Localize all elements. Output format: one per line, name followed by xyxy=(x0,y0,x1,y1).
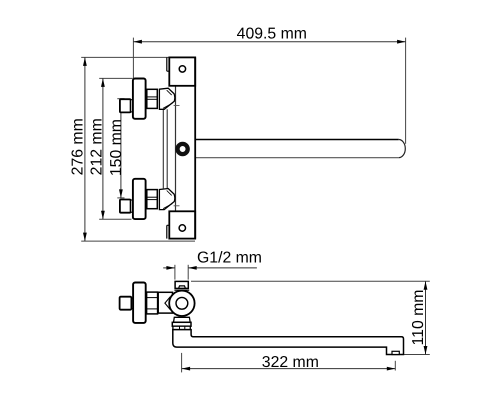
svg-text:150 mm: 150 mm xyxy=(108,119,125,176)
neck below circle xyxy=(174,317,191,322)
inlet stub (side view) xyxy=(174,281,189,290)
extension line bottom of dim 276 xyxy=(81,240,195,242)
extension line bottom of dim 110 xyxy=(404,354,430,356)
svg-text:G1/2 mm: G1/2 mm xyxy=(197,250,262,267)
knurled collar xyxy=(173,326,190,329)
valve body circle xyxy=(165,291,195,316)
svg-text:276 mm: 276 mm xyxy=(69,118,86,175)
valve assembly top (top view) xyxy=(120,79,180,119)
G1/2 dimension line xyxy=(163,266,257,270)
mounting ear top xyxy=(167,57,195,85)
extension line right of dim 409.5 xyxy=(405,38,407,144)
svg-text:409.5 mm: 409.5 mm xyxy=(237,26,307,43)
band xyxy=(172,322,191,326)
G1/2 extension ticks xyxy=(174,265,176,280)
mounting ear bottom xyxy=(167,211,195,238)
extension line left of dim 409.5 xyxy=(132,38,134,78)
socket with V-notch (side view) xyxy=(158,292,172,313)
body column internal lines xyxy=(163,86,175,212)
svg-text:322 mm: 322 mm xyxy=(262,354,319,371)
dimension line 110 mm xyxy=(424,281,428,354)
dimension line 150 mm xyxy=(119,99,123,198)
extension line top of dim 150 xyxy=(117,98,124,100)
svg-text:212 mm: 212 mm xyxy=(89,118,106,175)
dimension line 409.5 mm xyxy=(133,40,405,44)
extension line top of dim 110 xyxy=(191,280,430,282)
dimension line 276 mm xyxy=(83,57,87,241)
spout (top view) xyxy=(195,140,405,158)
tick left of dim 322 xyxy=(181,353,183,373)
extension line top of dim 276 xyxy=(81,56,169,58)
body right edge xyxy=(194,57,196,238)
svg-text:110 mm: 110 mm xyxy=(410,290,427,346)
valve assembly bottom (top view) xyxy=(120,179,180,219)
escutcheon disc (side view) xyxy=(133,283,146,323)
dimension line 322 mm xyxy=(182,367,396,371)
tick right of dim 322 xyxy=(394,361,396,371)
extension line bottom of dim 150 xyxy=(117,197,124,199)
diverter ring xyxy=(178,144,188,154)
extension line top of dim 212 xyxy=(99,77,132,79)
square nut (side view) xyxy=(120,297,132,310)
dimension line 212 mm xyxy=(101,78,105,219)
extension line bottom of dim 212 xyxy=(99,218,131,220)
flange (side view) xyxy=(131,298,133,308)
hex nut (side view) xyxy=(147,292,158,314)
spout (side view) xyxy=(173,330,404,355)
